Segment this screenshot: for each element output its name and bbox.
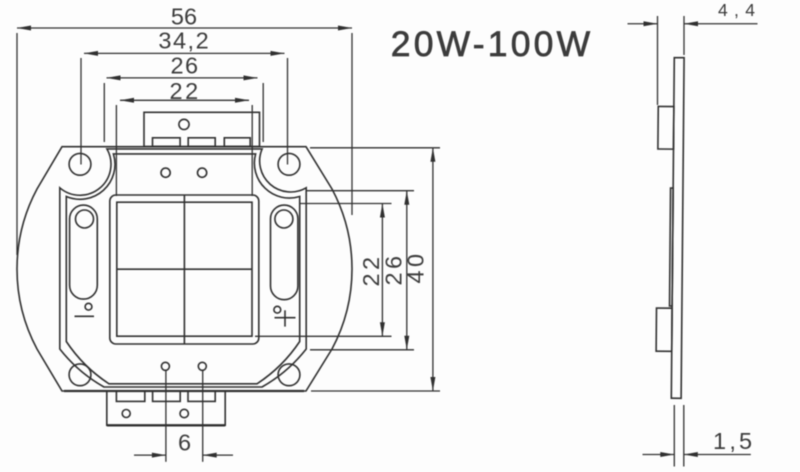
svg-text:26: 26 [171, 53, 200, 79]
svg-text:56: 56 [171, 4, 197, 30]
svg-text:6: 6 [178, 429, 191, 455]
svg-text:20W-100W: 20W-100W [391, 24, 594, 64]
svg-text:40: 40 [403, 251, 429, 284]
svg-text:1,5: 1,5 [713, 428, 755, 454]
svg-text:22: 22 [170, 78, 201, 104]
svg-text:34,2: 34,2 [158, 27, 210, 53]
svg-text:4,4: 4,4 [718, 0, 761, 20]
